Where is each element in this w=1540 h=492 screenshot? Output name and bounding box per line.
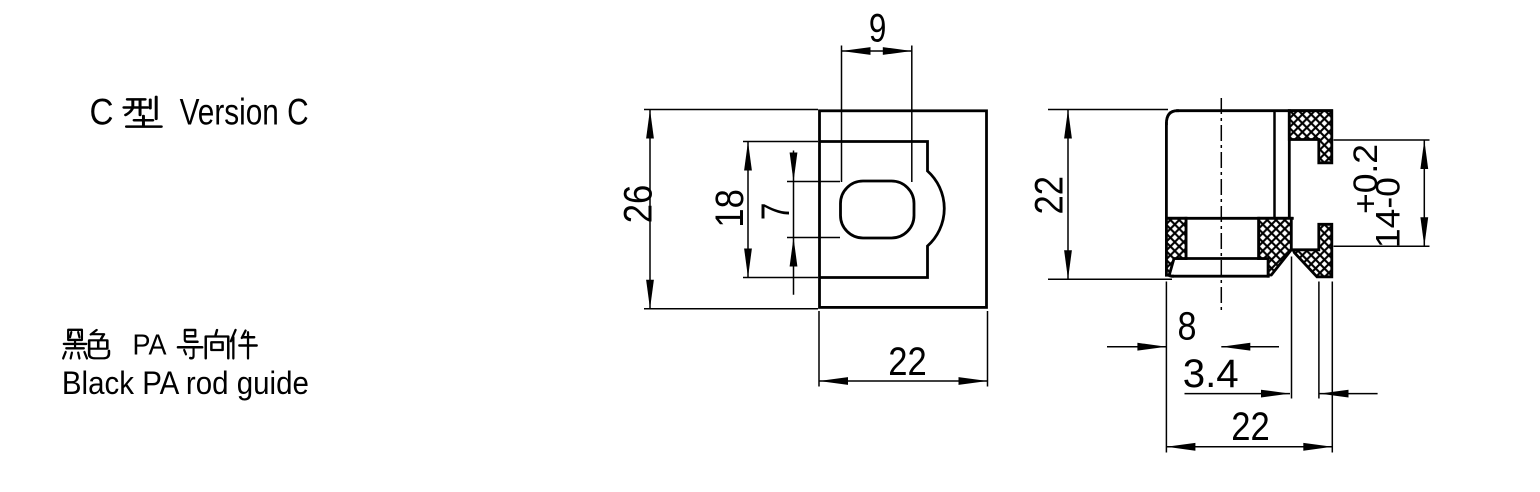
hatched lower-left block <box>1166 218 1186 275</box>
title: Version C <box>180 91 309 132</box>
front view obround hole <box>841 181 915 238</box>
side view top-left rounded corner <box>1166 111 1177 124</box>
svg-text:22: 22 <box>888 340 927 384</box>
dim 22 bottom arrow right <box>1303 443 1332 451</box>
dim 8 arrow left (outside, pointing right) <box>1137 343 1166 351</box>
dim 3.4 dimension line right <box>1320 393 1378 395</box>
dim 26 arrow bottom <box>646 280 654 309</box>
front view outer square outline <box>820 111 987 308</box>
dim 14 arrow top <box>1420 140 1428 169</box>
side view body bottom line <box>1166 217 1292 220</box>
side view centerline (dash-dot) <box>1220 98 1222 314</box>
hatched bottom arm hook of C profile <box>1293 224 1332 276</box>
dim 9 extension line left <box>841 46 843 183</box>
side view lip top / hole bottom line <box>1174 257 1268 260</box>
dim 7 extension line bottom <box>787 237 840 239</box>
svg-text:9: 9 <box>869 6 887 50</box>
dim 22 front text <box>888 340 927 384</box>
svg-text:PA: PA <box>133 329 168 361</box>
dim 26 dimension line <box>649 110 651 309</box>
side view inner vertical line A <box>1273 111 1276 219</box>
dim 22 bottom arrow left <box>1166 443 1195 451</box>
dim 22 left text (rotated) <box>1027 176 1071 215</box>
side view hole left edge <box>1185 218 1188 258</box>
dim 14 text 14-0 (rotated) <box>1370 177 1408 248</box>
svg-text:22: 22 <box>1027 176 1071 215</box>
dim 8 tail line left <box>1107 346 1166 348</box>
note line 1: PA <box>133 329 168 361</box>
dim 8 tail line right <box>1221 346 1279 348</box>
dim 18 arrow bottom <box>744 249 752 278</box>
side view inner vertical line B (web face) <box>1288 111 1291 219</box>
side view top edge <box>1178 109 1332 112</box>
dim 22 front arrow left <box>819 377 848 385</box>
svg-text:8: 8 <box>1178 304 1197 348</box>
hatched lower-right block with chamfer <box>1259 218 1292 275</box>
side view lip right edge <box>1267 259 1270 277</box>
dim 8 text <box>1178 304 1197 348</box>
svg-text:C: C <box>90 91 114 132</box>
hatched top arm of C profile <box>1289 111 1332 163</box>
side view left edge <box>1165 124 1168 270</box>
side view bottom edge (lip bottom) <box>1173 275 1269 278</box>
dim 7 arrow top (outside, pointing down) <box>790 153 798 182</box>
dim 14 extension line bottom <box>1334 245 1430 247</box>
dim 22 front extension line left <box>818 311 820 387</box>
svg-text:18: 18 <box>708 189 752 228</box>
svg-text:26: 26 <box>617 185 661 224</box>
dim 22 bottom extension line left <box>1165 282 1167 453</box>
title: C <box>90 91 114 132</box>
dim 9 text <box>869 6 887 50</box>
dim 3.4 text <box>1183 352 1239 396</box>
dim 22 bottom text <box>1231 405 1270 449</box>
dim 18 extension line bottom <box>743 277 818 279</box>
dim 22 left extension line top <box>1048 109 1168 111</box>
dim 26 arrow top <box>646 110 654 139</box>
dim 7 text (rotated) <box>754 203 798 221</box>
dim 22 front arrow right <box>959 377 988 385</box>
svg-text:3.4: 3.4 <box>1183 352 1239 396</box>
note line 1 CJK: se (color) <box>89 330 109 358</box>
dim 7 arrow bottom (outside, pointing up) <box>790 238 798 267</box>
dim 9 dimension line <box>842 50 912 52</box>
dim 14 extension line top <box>1334 139 1430 141</box>
dim 3.4 extension line right (tab edge) <box>1318 282 1320 399</box>
dim 9 extension line right <box>911 46 913 183</box>
dim 26 extension line top <box>644 109 818 111</box>
note line 1 CJK: hei (black) <box>63 330 87 359</box>
note line 1 CJK: dao (guide) <box>178 330 203 358</box>
dim 18 dimension line <box>747 142 749 278</box>
note line 2: Black PA rod guide <box>62 365 309 401</box>
dim 9 arrow left <box>842 47 871 55</box>
dim 14 dimension line <box>1423 140 1425 246</box>
dim 14 tolerance text +0.2 (rotated) <box>1347 144 1385 214</box>
dim 22 front dimension line <box>819 380 988 382</box>
svg-text:Black PA rod guide: Black PA rod guide <box>62 365 309 401</box>
dim 7 extension line top <box>787 181 840 183</box>
svg-text:Version C: Version C <box>180 91 309 132</box>
dim 8 arrow right (outside, pointing left) <box>1221 343 1250 351</box>
side view hole right edge <box>1257 218 1260 258</box>
dim 22 left arrow bottom <box>1064 250 1072 279</box>
dim 26 extension line bottom <box>644 308 818 310</box>
title CJK: xing (type) glyph <box>124 97 161 127</box>
dim 3.4 dimension line left <box>1185 393 1291 395</box>
svg-text:14-0: 14-0 <box>1370 177 1408 248</box>
dim 18 arrow top <box>744 142 752 171</box>
svg-text:22: 22 <box>1231 405 1270 449</box>
dim 22 left extension line bottom <box>1048 278 1172 280</box>
dim 22 left dimension line <box>1067 110 1069 280</box>
dim 3.4 extension line left (from notch) <box>1291 257 1293 399</box>
svg-text:7: 7 <box>754 203 798 221</box>
dim 22 bottom dimension line <box>1166 446 1332 448</box>
dim 14 arrow bottom <box>1420 217 1428 246</box>
note line 1 CJK: xiang (direction) <box>206 330 229 358</box>
side view bottom-left rounded corner <box>1166 270 1172 276</box>
note line 1 CJK: jian (piece) <box>231 330 257 358</box>
dim 22 bottom extension line right <box>1331 282 1333 453</box>
dim 26 text (rotated) <box>617 185 661 224</box>
dim 18 text (rotated) <box>708 189 752 228</box>
dim 18 extension line top <box>743 141 818 143</box>
dim 3.4 arrow (pointing right) <box>1261 390 1290 398</box>
front view inner contour with arc bulge <box>820 142 944 278</box>
dim 22 left arrow top <box>1064 110 1072 139</box>
dim 22 front extension line right <box>987 311 989 387</box>
dim 9 arrow right <box>883 47 912 55</box>
dim 3.4 arrow (pointing left) <box>1320 390 1349 398</box>
dim 7 dimension line <box>793 151 795 295</box>
